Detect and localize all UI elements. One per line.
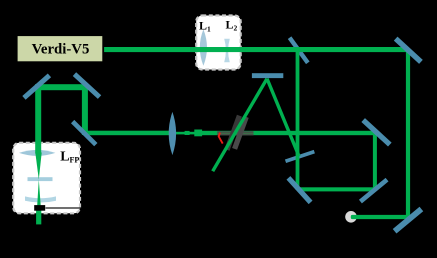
telescope box (L1 L2 enclosure) bbox=[196, 16, 241, 70]
mirror above lambda apex bbox=[252, 73, 283, 78]
beam: vertical from BS1 bbox=[296, 50, 300, 190]
laser head Verdi-V5 bbox=[17, 35, 104, 62]
beam: right vertical from top-right mirror bbox=[406, 52, 410, 219]
mirror lower-left of loop bbox=[286, 176, 312, 204]
beam: periscope top horizontal bbox=[35, 84, 88, 90]
lens L1 (convex) bbox=[200, 29, 207, 65]
mirror top-right corner bbox=[394, 37, 423, 64]
beam: periscope right vertical bbox=[82, 84, 88, 135]
beam: focused segment after lens bbox=[176, 132, 195, 135]
beamsplitter BS1 bbox=[288, 36, 310, 64]
Fabry-Perot box (L_FP enclosure) bbox=[13, 143, 80, 214]
etalon plate in FP box bbox=[28, 177, 53, 181]
periscope mirror lower bbox=[71, 120, 98, 146]
lens L_FP (top convex lens in FP box) bbox=[19, 150, 55, 156]
beam: main horizontal through lens and grating bbox=[86, 131, 177, 136]
AOM crystal block on beam bbox=[194, 130, 202, 137]
grating back plate bbox=[232, 116, 249, 150]
beamsplitter BS2 bbox=[285, 150, 315, 163]
beam: lower horizontal between mirrors bbox=[300, 187, 376, 191]
beam seen through mount arm bbox=[217, 133, 253, 135]
beam: converging cone in FP box bbox=[35, 153, 41, 180]
beam: to detector bbox=[351, 215, 410, 219]
beam: below sample in FP box bbox=[36, 210, 41, 224]
beam: periscope left vertical into FP box bbox=[35, 84, 41, 153]
pigtail line from sample bbox=[46, 207, 82, 209]
beam: main horizontal grating to mirror bbox=[202, 131, 375, 135]
periscope mirror top-left bbox=[22, 73, 51, 99]
svg-text:Verdi-V5: Verdi-V5 bbox=[32, 42, 90, 58]
beam: focused cone to sample in FP box bbox=[37, 180, 41, 206]
mirror mid-right bbox=[361, 118, 391, 146]
beam: lambda left leg (diffracted) bbox=[213, 79, 267, 172]
beam: laser output horizontal bbox=[103, 47, 408, 52]
grating mount arm bbox=[217, 131, 253, 135]
red angle mark at grating bbox=[219, 133, 223, 144]
detector bbox=[345, 211, 357, 223]
beam: lambda right leg bbox=[267, 79, 299, 157]
beam: vertical between right mirrors bbox=[373, 134, 377, 190]
periscope mirror top-right bbox=[73, 72, 101, 99]
mirror lower-mid-right bbox=[359, 178, 389, 203]
grating bbox=[225, 115, 242, 151]
focusing lens on main beam bbox=[169, 112, 176, 155]
beam waist block before AOM bbox=[185, 131, 190, 135]
mirror bottom-right bbox=[393, 207, 423, 234]
sample (black absorber) in FP box bbox=[34, 205, 45, 211]
concave lens in FP box bbox=[25, 196, 56, 202]
lens L2 (concave) bbox=[224, 39, 230, 62]
